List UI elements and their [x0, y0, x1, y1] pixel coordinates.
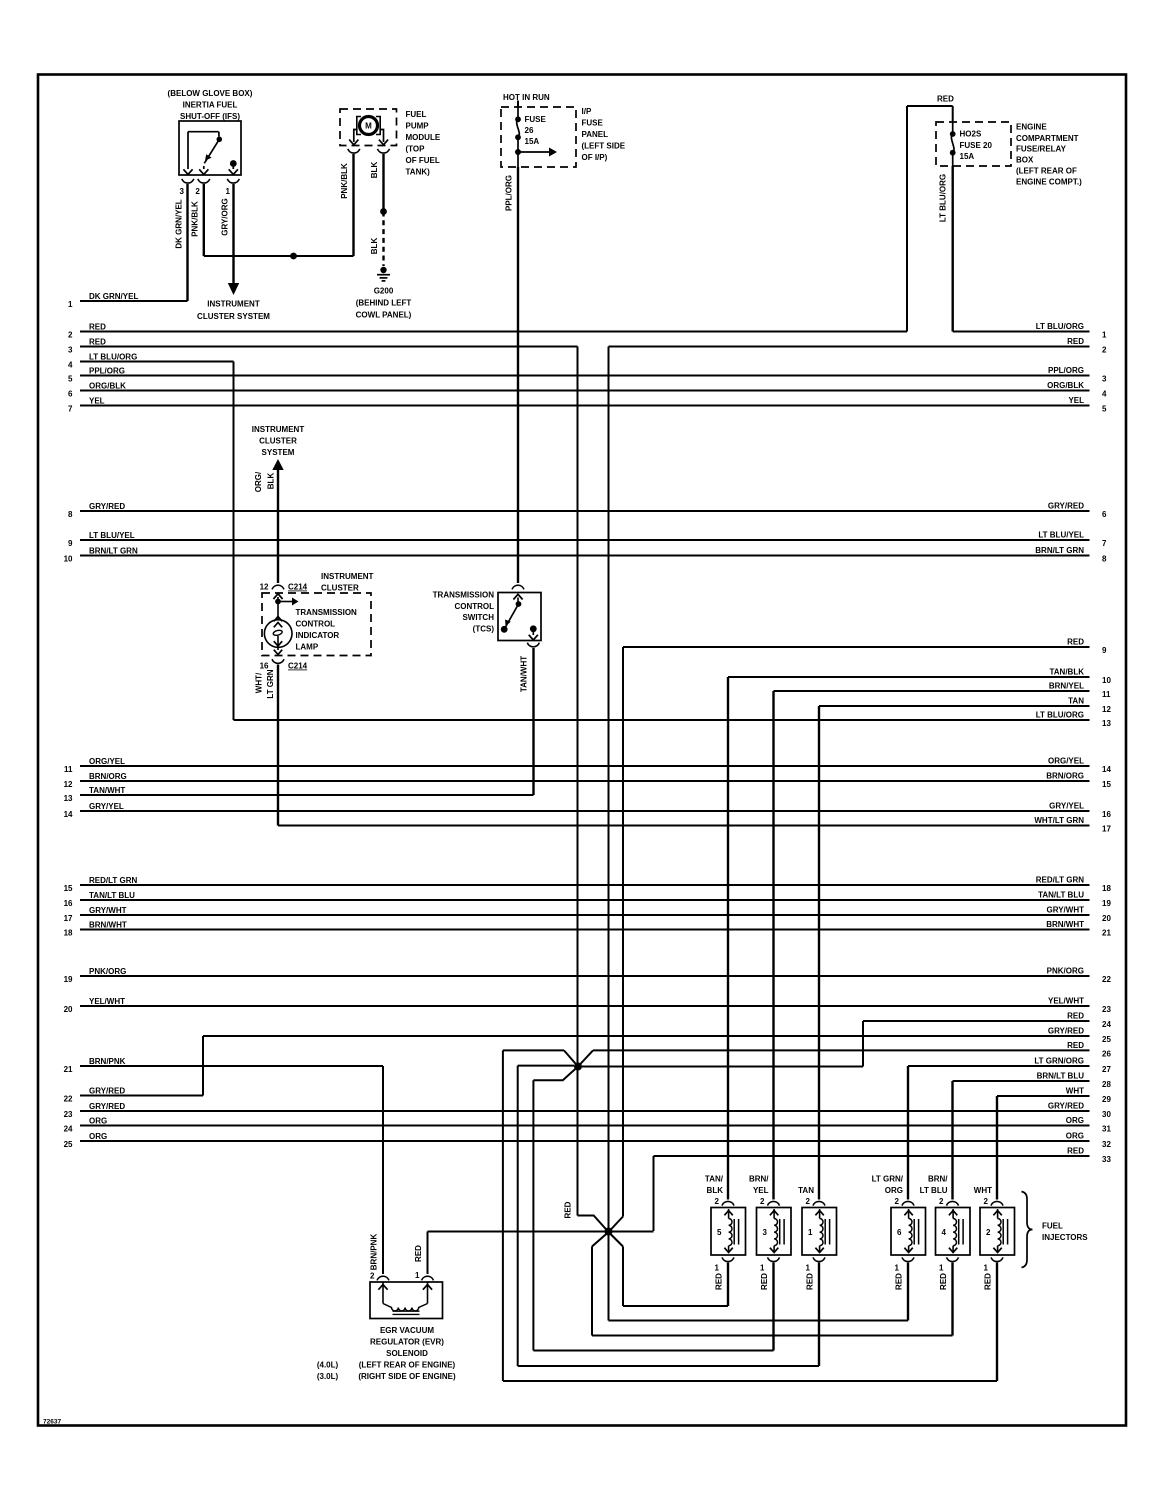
svg-text:RED: RED: [564, 1201, 573, 1218]
fuel injector 4 label: [920, 1175, 949, 1196]
svg-text:6: 6: [1102, 510, 1107, 519]
svg-text:GRY/RED: GRY/RED: [89, 1087, 125, 1096]
wire DK GRN/YEL left pin 1: [68, 292, 187, 309]
wire BRN/LT BLU vertical down to fuel injector 4: [951, 1081, 953, 1200]
wire GRY/YEL (left pin 14 to right pin 16): [64, 802, 1112, 819]
svg-text:3: 3: [68, 345, 73, 354]
svg-text:COMPARTMENT: COMPARTMENT: [1016, 134, 1079, 143]
TCS top connector: [512, 585, 524, 589]
svg-text:22: 22: [1102, 975, 1111, 984]
svg-text:8: 8: [1102, 554, 1107, 563]
svg-text:12: 12: [1102, 705, 1111, 714]
fuel injector 2 RED return wire stub: [984, 1263, 998, 1382]
svg-text:10: 10: [64, 554, 73, 563]
svg-text:RED: RED: [1067, 337, 1084, 346]
svg-text:17: 17: [64, 914, 73, 923]
svg-text:RED: RED: [89, 338, 106, 347]
svg-text:14: 14: [1102, 765, 1111, 774]
svg-text:BRN/LT BLU: BRN/LT BLU: [1037, 1072, 1085, 1081]
EGR vacuum regulator (EVR) solenoid box: [370, 1282, 443, 1319]
svg-text:GRY/WHT: GRY/WHT: [89, 906, 127, 915]
wire TAN/WHT from TCS: [520, 648, 534, 795]
svg-text:FUEL: FUEL: [1042, 1222, 1063, 1231]
splice dot on BLK wire: [380, 208, 387, 215]
svg-text:TAN/WHT: TAN/WHT: [89, 786, 125, 795]
svg-text:RED: RED: [937, 95, 954, 104]
svg-text:2: 2: [68, 330, 73, 339]
wire TAN/LT BLU (left pin 16 to right pin 19): [64, 891, 1112, 908]
svg-text:15: 15: [1102, 780, 1111, 789]
svg-text:4: 4: [68, 360, 73, 369]
svg-text:18: 18: [1102, 884, 1111, 893]
transmission control switch caption: [433, 591, 495, 634]
fuel pump module caption: [406, 110, 441, 177]
svg-text:SYSTEM: SYSTEM: [262, 448, 295, 457]
wire WHT/LT GRN from cluster pin 16: [255, 665, 279, 826]
svg-text:2: 2: [986, 1228, 991, 1237]
wire RED from splice S2 to EGR pin 1: [414, 1232, 428, 1275]
fuel injectors brace: [1022, 1192, 1033, 1268]
wire BRN/YEL vertical down to fuel injector 3: [772, 691, 774, 1200]
wire LT BLU/YEL (left pin 9 to right pin 7): [68, 531, 1107, 548]
wire RED return injector 3 bus: [533, 1350, 773, 1352]
wire RED riser from splice S1 down to injector 2 return: [502, 1050, 504, 1381]
svg-text:33: 33: [1102, 1155, 1111, 1164]
fuel injector 6 pin 2 connector: [895, 1197, 914, 1206]
svg-text:PPL/ORG: PPL/ORG: [505, 175, 514, 211]
instrument cluster box: [262, 593, 371, 656]
svg-text:BRN/PNK: BRN/PNK: [89, 1057, 126, 1066]
svg-text:26: 26: [525, 126, 534, 135]
svg-text:CLUSTER SYSTEM: CLUSTER SYSTEM: [197, 312, 270, 321]
svg-text:YEL: YEL: [753, 1186, 769, 1195]
svg-text:RED: RED: [1067, 1147, 1084, 1156]
svg-text:19: 19: [1102, 899, 1111, 908]
wire ORG/BLK (left pin 6 to right pin 4): [68, 381, 1107, 398]
svg-text:BRN/WHT: BRN/WHT: [89, 921, 127, 930]
svg-text:LT GRN: LT GRN: [266, 669, 275, 698]
svg-text:RED: RED: [806, 1273, 815, 1290]
EGR pin 2 connector: [370, 1272, 389, 1281]
svg-text:ENGINE: ENGINE: [1016, 123, 1047, 132]
svg-text:WHT/LT GRN: WHT/LT GRN: [1034, 816, 1084, 825]
svg-text:TRANSMISSION: TRANSMISSION: [433, 591, 495, 600]
svg-text:BRN/: BRN/: [928, 1175, 948, 1184]
fuel injector 1: [802, 1208, 837, 1256]
svg-text:INSTRUMENT: INSTRUMENT: [321, 572, 374, 581]
svg-text:PUMP: PUMP: [406, 122, 430, 131]
svg-text:6: 6: [68, 389, 73, 398]
svg-text:BOX: BOX: [1016, 155, 1034, 164]
svg-text:21: 21: [1102, 928, 1111, 937]
svg-text:18: 18: [64, 928, 73, 937]
fuel injector 2 pin 1 connector: [984, 1257, 1003, 1272]
svg-text:CONTROL: CONTROL: [454, 602, 494, 611]
svg-text:FUSE 20: FUSE 20: [960, 141, 993, 150]
svg-text:MODULE: MODULE: [406, 133, 441, 142]
svg-text:PNK/BLK: PNK/BLK: [340, 163, 349, 199]
svg-text:BRN/PNK: BRN/PNK: [370, 1234, 379, 1271]
svg-text:13: 13: [1102, 719, 1111, 728]
fuel injector 4 pin 1 connector: [939, 1257, 958, 1272]
svg-text:30: 30: [1102, 1110, 1111, 1119]
svg-text:BLK: BLK: [267, 473, 276, 490]
svg-text:LT BLU/ORG: LT BLU/ORG: [1036, 711, 1084, 720]
svg-text:(LEFT REAR OF ENGINE): (LEFT REAR OF ENGINE): [359, 1361, 456, 1370]
wire RED return injector 5 bus: [623, 1247, 728, 1307]
splice dot on PNK/BLK wire: [290, 253, 297, 260]
fuel injector 2 pin 2 connector: [984, 1197, 1003, 1206]
transmission control indicator lamp caption: [296, 608, 358, 652]
wire PNK/ORG (left pin 19 to right pin 22): [64, 967, 1112, 984]
diagram number 72637: [43, 1419, 61, 1426]
wire TAN/WHT left pin 13: [64, 786, 534, 803]
svg-text:GRY/YEL: GRY/YEL: [89, 802, 124, 811]
svg-text:31: 31: [1102, 1124, 1111, 1133]
svg-text:LT BLU/YEL: LT BLU/YEL: [1038, 531, 1084, 540]
svg-text:WHT: WHT: [974, 1186, 992, 1195]
svg-text:(TCS): (TCS): [473, 624, 495, 633]
svg-text:DK GRN/YEL: DK GRN/YEL: [175, 199, 184, 248]
wire ORG/YEL (left pin 11 to right pin 14): [64, 757, 1111, 774]
wire YEL/WHT (left pin 20 to right pin 23): [64, 997, 1112, 1014]
svg-text:LT BLU/YEL: LT BLU/YEL: [89, 531, 135, 540]
svg-text:6: 6: [897, 1228, 902, 1237]
svg-text:ENGINE COMPT.): ENGINE COMPT.): [1016, 178, 1082, 187]
svg-text:24: 24: [1102, 1020, 1111, 1029]
ground G200: [377, 267, 390, 281]
svg-text:YEL/WHT: YEL/WHT: [1048, 997, 1084, 1006]
fuel injector 5 pin 1 connector: [715, 1257, 734, 1272]
svg-text:OF I/P): OF I/P): [582, 153, 608, 162]
wire GRY/RED vertical from left pin 22 up to right pin 25: [202, 1036, 204, 1096]
svg-text:20: 20: [1102, 914, 1111, 923]
wire ORG (left pin 25 to right pin 32): [64, 1132, 1112, 1149]
svg-text:TAN: TAN: [798, 1186, 814, 1195]
fuel injector 3 pin 2 connector: [760, 1197, 779, 1206]
splice junction S2 dot: [605, 1228, 613, 1236]
svg-text:G200: G200: [374, 287, 394, 296]
wire BRN/LT BLU right pin 28: [953, 1072, 1112, 1089]
instrument cluster caption: [321, 572, 374, 593]
svg-text:1: 1: [984, 1264, 989, 1273]
splice junction S1 dot: [574, 1063, 582, 1071]
fuel pump module box: [340, 109, 397, 146]
TCS switch internals: [501, 594, 538, 640]
wire RED right pin 24: [863, 1012, 1111, 1029]
svg-text:1: 1: [68, 300, 73, 309]
transmission control switch (TCS) box: [498, 593, 541, 641]
svg-text:RED: RED: [715, 1273, 724, 1290]
svg-text:GRY/RED: GRY/RED: [89, 1102, 125, 1111]
svg-text:2: 2: [939, 1197, 944, 1206]
wire BRN/PNK label at EGR: [370, 1234, 379, 1271]
IFS switch internals: [183, 132, 238, 175]
HO2S fuse 20 15A: [950, 122, 993, 166]
wire ORG/BLK to instrument cluster: [254, 470, 278, 583]
svg-text:DK GRN/YEL: DK GRN/YEL: [89, 292, 138, 301]
svg-text:HOT IN RUN: HOT IN RUN: [503, 93, 550, 102]
wire PNK/BLK horizontal to fuel pump: [204, 255, 354, 257]
svg-text:PNK/ORG: PNK/ORG: [1047, 967, 1084, 976]
fuel injector 2: [980, 1208, 1015, 1256]
svg-text:RED: RED: [1067, 1012, 1084, 1021]
wire RED return injector 2 bus: [503, 1380, 997, 1382]
svg-text:9: 9: [1102, 646, 1107, 655]
EGR solenoid coil: [378, 1282, 432, 1314]
svg-text:RED: RED: [895, 1273, 904, 1290]
svg-text:PNK/ORG: PNK/ORG: [89, 967, 126, 976]
EGR solenoid caption: [317, 1326, 456, 1381]
IFS pin 3 connector: [180, 179, 194, 196]
svg-text:INERTIA FUEL: INERTIA FUEL: [183, 101, 238, 110]
arrow to instrument cluster system: [228, 283, 239, 295]
wire BRN/PNK vertical from left pin 21 down to EGR solenoid pin 2: [382, 1066, 384, 1274]
fuel injector 5 pin 2 connector: [715, 1197, 734, 1206]
svg-text:2: 2: [984, 1197, 989, 1206]
wire PNK/BLK from IFS pin 2: [191, 184, 204, 256]
svg-text:3: 3: [1102, 374, 1107, 383]
svg-text:RED/LT GRN: RED/LT GRN: [1036, 876, 1085, 885]
IFS pin 1 connector: [226, 179, 240, 196]
fuel pump pin connector right: [378, 149, 390, 153]
wire LT BLU/ORG vertical from left pin 4 down to right pin 13: [233, 362, 235, 721]
wire RED return injector 4 bus: [592, 1247, 953, 1336]
svg-text:3: 3: [180, 187, 185, 196]
wire GRY/RED right pin 25: [203, 1027, 1111, 1044]
svg-text:M: M: [365, 122, 372, 131]
wire PPL/ORG (left pin 5 to right pin 3): [68, 366, 1107, 383]
svg-text:FUSE: FUSE: [525, 115, 547, 124]
arrow up to instrument cluster system: [272, 459, 283, 470]
svg-text:13: 13: [64, 794, 73, 803]
fuel injector 4 RED return wire stub: [939, 1263, 953, 1336]
svg-text:7: 7: [68, 404, 73, 413]
wire YEL (left pin 7 to right pin 5): [68, 396, 1107, 413]
svg-text:RED/LT GRN: RED/LT GRN: [89, 876, 138, 885]
ground G200 caption: [356, 287, 412, 320]
svg-text:15A: 15A: [525, 137, 540, 146]
wire LT BLU/ORG right pin 1: [953, 322, 1107, 339]
svg-text:BRN/ORG: BRN/ORG: [89, 772, 127, 781]
wire BLK from fuel pump: [370, 154, 384, 212]
svg-text:YEL: YEL: [1068, 396, 1084, 405]
wire LT GRN/ORG vertical down to fuel injector 6: [907, 1066, 909, 1200]
fuel injector 1 pin 2 connector: [806, 1197, 825, 1206]
svg-text:1: 1: [760, 1264, 765, 1273]
svg-text:11: 11: [64, 765, 73, 774]
svg-text:RED: RED: [1067, 638, 1084, 647]
svg-text:LT GRN/ORG: LT GRN/ORG: [1034, 1057, 1084, 1066]
svg-text:BRN/LT GRN: BRN/LT GRN: [89, 547, 138, 556]
fuse panel branch arrow: [515, 148, 557, 157]
svg-text:C214: C214: [288, 662, 308, 671]
svg-text:TAN: TAN: [1068, 697, 1084, 706]
svg-text:YEL: YEL: [89, 397, 105, 406]
svg-text:ORG: ORG: [885, 1186, 903, 1195]
svg-text:2: 2: [1102, 345, 1107, 354]
svg-text:SHUT-OFF (IFS): SHUT-OFF (IFS): [180, 112, 240, 121]
svg-text:FUSE/RELAY: FUSE/RELAY: [1016, 145, 1067, 154]
wire GRY/RED (left pin 8 to right pin 6): [68, 502, 1107, 519]
svg-text:11: 11: [1102, 690, 1111, 699]
fuel injector 3 label: [749, 1175, 769, 1196]
wire RED riser from splice S1 down to injector 3 return: [532, 1080, 534, 1350]
engine compartment fuse/relay box: [936, 122, 1011, 166]
wire PNK/BLK from fuel pump down: [340, 154, 354, 256]
svg-text:BLK: BLK: [707, 1186, 724, 1195]
fuel injector 6: [891, 1208, 926, 1256]
wire BRN/ORG (left pin 12 to right pin 15): [64, 772, 1112, 789]
wire BRN/PNK left pin 21: [64, 1057, 383, 1074]
svg-text:CLUSTER: CLUSTER: [259, 437, 297, 446]
svg-text:ORG/YEL: ORG/YEL: [1048, 757, 1084, 766]
svg-text:INSTRUMENT: INSTRUMENT: [252, 425, 305, 434]
svg-text:4: 4: [942, 1228, 947, 1237]
svg-text:GRY/RED: GRY/RED: [1048, 502, 1084, 511]
svg-text:GRY/RED: GRY/RED: [1048, 1102, 1084, 1111]
wire RED jumper at top: [907, 95, 954, 332]
svg-text:ORG/: ORG/: [254, 471, 263, 492]
wire RED right pin 2: [609, 337, 1108, 354]
svg-text:LT BLU: LT BLU: [920, 1186, 948, 1195]
svg-text:25: 25: [64, 1140, 73, 1149]
wire BLK dashed to ground: [370, 212, 384, 267]
fuel pump pin connector left: [348, 149, 360, 153]
svg-text:C214: C214: [288, 583, 308, 592]
svg-text:HO2S: HO2S: [960, 130, 982, 139]
fuel injector 1 RED return wire stub: [806, 1263, 820, 1367]
svg-text:RED: RED: [939, 1273, 948, 1290]
wire RED/LT GRN (left pin 15 to right pin 18): [64, 876, 1112, 893]
svg-text:1: 1: [808, 1228, 813, 1237]
svg-text:21: 21: [64, 1065, 73, 1074]
wire WHT right pin 29: [997, 1087, 1111, 1104]
fuel injector 2 label: [974, 1186, 992, 1195]
svg-text:1: 1: [806, 1264, 811, 1273]
svg-text:1: 1: [415, 1271, 420, 1280]
svg-text:ORG/BLK: ORG/BLK: [89, 382, 126, 391]
svg-text:23: 23: [64, 1110, 73, 1119]
svg-text:LT GRN/: LT GRN/: [872, 1175, 904, 1184]
svg-text:7: 7: [1102, 539, 1107, 548]
svg-text:5: 5: [717, 1228, 722, 1237]
wire LT BLU/ORG from HO2S fuse: [939, 166, 953, 332]
engine compartment fuse box caption: [1016, 123, 1082, 187]
svg-text:RED: RED: [760, 1273, 769, 1290]
wire LT BLU/ORG left pin 4: [68, 353, 233, 370]
fuel injector 1 label: [798, 1186, 814, 1195]
wire BRN/WHT (left pin 18 to right pin 21): [64, 920, 1112, 937]
fuel injector 6 label: [872, 1175, 904, 1196]
svg-text:BRN/LT GRN: BRN/LT GRN: [1035, 546, 1084, 555]
svg-text:14: 14: [64, 810, 73, 819]
wire GRY/WHT (left pin 17 to right pin 20): [64, 906, 1112, 923]
svg-text:TANK): TANK): [406, 168, 431, 177]
svg-text:INJECTORS: INJECTORS: [1042, 1233, 1088, 1242]
svg-text:29: 29: [1102, 1095, 1111, 1104]
EGR pin 1 connector: [415, 1271, 433, 1280]
svg-text:RED: RED: [89, 323, 106, 332]
fuel injector 1 pin 1 connector: [806, 1257, 825, 1272]
svg-text:FUSE: FUSE: [582, 119, 604, 128]
svg-text:1: 1: [226, 187, 231, 196]
wire RED right pin 33: [654, 1147, 1112, 1164]
svg-text:RED: RED: [414, 1245, 423, 1262]
fuel injector 3: [757, 1208, 792, 1256]
instrument cluster system caption 2: [252, 425, 305, 457]
fuel injector 3 pin 1 connector: [760, 1257, 779, 1272]
svg-text:ORG: ORG: [89, 1132, 107, 1141]
svg-text:15A: 15A: [960, 152, 975, 161]
svg-text:2: 2: [195, 187, 200, 196]
svg-text:BRN/: BRN/: [749, 1175, 769, 1184]
wire ORG (left pin 24 to right pin 31): [64, 1116, 1112, 1133]
svg-text:15: 15: [64, 884, 73, 893]
transmission control indicator lamp: [264, 594, 298, 655]
svg-text:1: 1: [939, 1264, 944, 1273]
fuel pump motor M1: [357, 117, 380, 135]
hot in run caption: [503, 93, 550, 102]
wire RED right pin 9: [623, 638, 1107, 655]
wire RED vertical from right pin 2 down to splice S2: [608, 347, 610, 1233]
svg-text:PNK/BLK: PNK/BLK: [191, 201, 200, 237]
svg-text:ORG: ORG: [1066, 1132, 1084, 1141]
wire RED vertical from left pin 3 down to splice S2: [577, 347, 579, 1216]
wire TAN/BLK right pin 10: [728, 668, 1111, 685]
svg-text:LT BLU/ORG: LT BLU/ORG: [89, 353, 137, 362]
svg-text:1: 1: [895, 1264, 900, 1273]
fuel injector 6 RED return wire stub: [895, 1263, 909, 1321]
splice junction S1 connections: [518, 1066, 863, 1081]
svg-text:(3.0L): (3.0L): [317, 1372, 339, 1381]
svg-text:2: 2: [806, 1197, 811, 1206]
wire RED vertical from right pin 24 down to splice S1 branch: [862, 1021, 864, 1067]
wire GRY/ORG from IFS pin 1: [221, 184, 234, 283]
svg-text:BRN/ORG: BRN/ORG: [1046, 772, 1084, 781]
svg-text:32: 32: [1102, 1140, 1111, 1149]
svg-text:24: 24: [64, 1124, 73, 1133]
svg-text:SWITCH: SWITCH: [462, 613, 494, 622]
wire RED vertical from right pin 9 down to splice S2: [622, 647, 624, 1217]
svg-text:5: 5: [68, 374, 73, 383]
svg-text:GRY/YEL: GRY/YEL: [1049, 802, 1084, 811]
svg-text:CONTROL: CONTROL: [296, 620, 336, 629]
svg-text:2: 2: [760, 1197, 765, 1206]
wire BRN/YEL right pin 11: [774, 682, 1112, 699]
svg-text:16: 16: [64, 899, 73, 908]
svg-text:5: 5: [1102, 404, 1107, 413]
fuel injector 6 pin 1 connector: [895, 1257, 914, 1272]
svg-text:WHT: WHT: [1066, 1087, 1084, 1096]
svg-text:PANEL: PANEL: [582, 130, 609, 139]
svg-text:12: 12: [260, 583, 269, 592]
I/P fuse panel box: [501, 101, 576, 168]
svg-text:ORG: ORG: [89, 1117, 107, 1126]
fuse 26 15A: [515, 107, 546, 167]
wire RED left pin 2: [68, 323, 907, 340]
svg-text:4: 4: [1102, 389, 1107, 398]
svg-text:SOLENOID: SOLENOID: [386, 1349, 428, 1358]
svg-text:16: 16: [260, 662, 269, 671]
svg-text:(RIGHT SIDE OF ENGINE): (RIGHT SIDE OF ENGINE): [358, 1372, 456, 1381]
wire RED left pin 3: [68, 338, 577, 355]
svg-text:INSTRUMENT: INSTRUMENT: [207, 300, 260, 309]
wire RED return injector 6 bus: [609, 1232, 909, 1321]
svg-text:10: 10: [1102, 676, 1111, 685]
svg-text:TAN/LT BLU: TAN/LT BLU: [89, 891, 135, 900]
svg-text:GRY/RED: GRY/RED: [89, 502, 125, 511]
